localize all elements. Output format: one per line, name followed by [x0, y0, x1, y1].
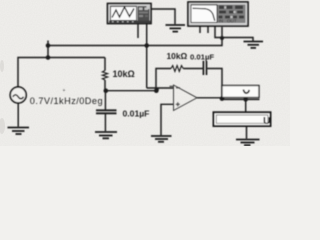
svg-text:U: U — [263, 115, 271, 127]
svg-text:10kΩ: 10kΩ — [167, 51, 188, 61]
svg-text:IN OUT: IN OUT — [219, 19, 237, 24]
svg-text:+: + — [63, 88, 66, 94]
svg-text:0.7V/1kHz/0Deg: 0.7V/1kHz/0Deg — [30, 96, 103, 106]
svg-text:10kΩ: 10kΩ — [113, 69, 135, 79]
svg-text:0.01µF: 0.01µF — [190, 52, 214, 61]
svg-text:0.01µF: 0.01µF — [123, 109, 150, 119]
